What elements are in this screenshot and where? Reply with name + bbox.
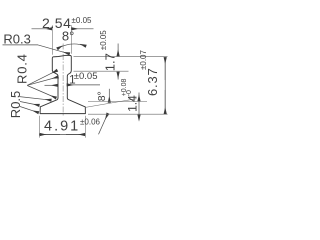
- svg-text:8°: 8°: [96, 91, 108, 101]
- svg-text:4.91: 4.91: [44, 119, 80, 135]
- dim 6.37 arrow down: [164, 90, 166, 114]
- dim 1.7 arrow upper outside: [117, 44, 119, 57]
- svg-text:R0.4: R0.4: [14, 53, 29, 84]
- dim 4.91 line: [40, 134, 86, 136]
- dim 4.91 ext line right: [84, 116, 86, 138]
- svg-text:±0.05: ±0.05: [99, 30, 108, 51]
- dim 4.91 arrow left: [40, 134, 60, 136]
- svg-text:8°: 8°: [62, 28, 74, 43]
- svg-text:6.37: 6.37: [145, 67, 160, 96]
- dim 1.7 arrow lower outside: [117, 72, 119, 80]
- radius R0.3 shelf: [3, 44, 39, 46]
- radius R0.5 leader bottom: [20, 107, 39, 113]
- dim 2.54 arrow right: [72, 28, 94, 30]
- dim 1.4 arrow lower outside: [138, 115, 140, 118]
- radius R0.3 leader: [38, 45, 70, 54]
- svg-text:-0: -0: [126, 90, 133, 96]
- radius R0.4 leader lower: [27, 86, 56, 99]
- radius R0.5 leader: [20, 97, 52, 101]
- dim 1.4 arrow upper outside: [138, 93, 140, 102]
- radius R0.4 leader middle: [27, 77, 58, 85]
- dim 1.4 line middle: [138, 102, 140, 115]
- dim 1 web arrow left: [45, 84, 58, 86]
- svg-text:R0.5: R0.5: [8, 91, 23, 118]
- angle 8 deg lower arrow: [108, 89, 110, 103]
- ext line foot top right: [88, 101, 147, 103]
- svg-text:±0.06: ±0.06: [80, 118, 101, 127]
- svg-text:±0.07: ±0.07: [139, 49, 148, 70]
- radius R0.4 leader upper: [27, 70, 57, 85]
- angle 8 deg dimension arc: [57, 44, 86, 49]
- dim 2.54 ext line right: [70, 25, 72, 54]
- svg-text:±0.05: ±0.05: [74, 71, 98, 82]
- centerline: [62, 44, 64, 118]
- dim 6.37 arrow up: [164, 57, 166, 80]
- angle 8 deg lower reference line: [85, 99, 136, 108]
- angle 8 deg lower arrow second: [99, 113, 108, 134]
- dim 2.54 ext line left: [51, 25, 53, 55]
- dim 6.37 line: [164, 58, 166, 115]
- rail profile outline: [40, 55, 85, 113]
- ext line head top right: [74, 56, 168, 58]
- svg-text:1.7: 1.7: [102, 53, 117, 71]
- dim 4.91 arrow right: [66, 134, 85, 136]
- radius R0.5 leader corner: [20, 102, 39, 106]
- dim 1 web arrow right: [67, 84, 100, 86]
- svg-text:R0.3: R0.3: [3, 31, 30, 46]
- dim 2.54 arrow left: [32, 28, 52, 30]
- ext line foot bottom right: [88, 113, 168, 115]
- ext line head bottom right: [74, 70, 129, 72]
- svg-text:±0.05: ±0.05: [72, 16, 93, 25]
- dim 4.91 ext line left: [38, 116, 40, 138]
- svg-text:1.4: 1.4: [126, 95, 140, 112]
